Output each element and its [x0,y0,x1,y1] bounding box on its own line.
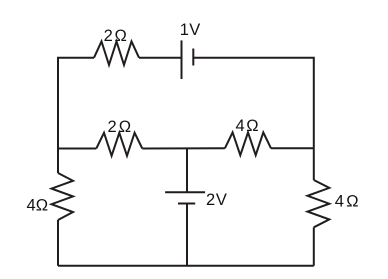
svg-text:Ω: Ω [346,193,358,211]
svg-text:2: 2 [104,27,113,45]
battery V1 short plate [192,49,194,66]
resistor R2 2ohm middle [96,133,142,156]
svg-text:2: 2 [108,118,117,136]
svg-text:Ω: Ω [36,197,48,215]
resistor R4 4ohm right [308,180,330,227]
svg-text:4: 4 [335,193,344,211]
svg-text:2: 2 [206,191,215,209]
wire right rail upper [313,148,315,180]
wire right rail lower [313,227,315,265]
wire middle branch upper [186,148,188,192]
resistor R1 2ohm top [94,41,139,65]
svg-text:V: V [216,191,227,209]
svg-text:1: 1 [180,21,189,39]
svg-text:4: 4 [27,197,36,215]
wire R1 to V1 [139,57,182,59]
svg-text:4: 4 [236,117,245,135]
wire middle right [271,147,314,149]
wire left rail upper [57,149,59,174]
wire middle branch lower [186,204,188,266]
wire middle left [58,148,96,150]
wire V1 to top-right corner and right rail [193,58,313,149]
svg-text:Ω: Ω [246,117,258,135]
wire left rail lower [57,220,59,266]
battery V2 long plate [165,191,205,193]
wire bottom [58,265,314,267]
resistor R3 4ohm left [52,173,74,220]
wire middle center [142,147,225,149]
svg-text:Ω: Ω [119,118,131,136]
battery V1 long plate [181,40,183,79]
battery V2 short plate [178,203,195,205]
svg-text:Ω: Ω [115,27,127,45]
resistor R5 4ohm middle [225,132,271,155]
wire top-left [58,58,94,149]
svg-text:V: V [189,21,200,39]
